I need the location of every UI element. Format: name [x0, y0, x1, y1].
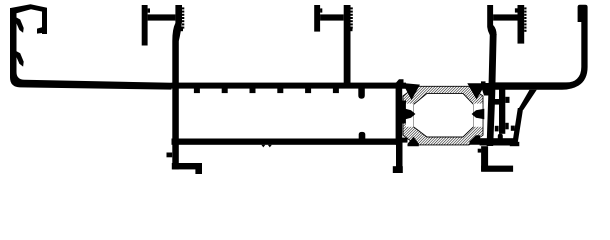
middle fork bridge	[320, 14, 344, 20]
diagonal wall bottom foot	[510, 142, 520, 146]
right step vertical	[481, 146, 488, 171]
mid-right clamp arrow	[472, 104, 485, 127]
left fork stem right nub	[180, 27, 183, 32]
stem left nub	[167, 153, 173, 158]
glazing barb lower on left wall	[17, 51, 24, 66]
left fork left prong	[142, 5, 148, 46]
box bottom wall	[172, 139, 403, 145]
box screw ticks	[194, 89, 339, 94]
right fork serrations	[524, 7, 526, 31]
left fork bridge	[148, 14, 176, 20]
left outer-frame wall with bottom web	[10, 8, 172, 90]
left fork prong top nub	[148, 8, 150, 12]
stem foot end lip	[195, 163, 202, 174]
left fork right prong merging into stem	[172, 5, 182, 169]
top-left clamp	[396, 79, 406, 89]
middle fork serrations	[351, 7, 353, 28]
stem bottom foot	[172, 163, 198, 169]
box right stem foot	[393, 166, 403, 173]
wall-to-boss link	[495, 99, 500, 105]
bottom-right clamp	[470, 135, 487, 145]
glazing barb upper on left wall	[17, 18, 24, 33]
right bottom foot	[481, 166, 513, 172]
screw boss bar	[499, 90, 505, 134]
middle fork left prong	[314, 5, 320, 32]
right fork bridge	[493, 14, 517, 20]
right bottom bar	[480, 138, 518, 145]
middle fork stem right nub	[350, 27, 353, 32]
small tick below box bottom	[261, 145, 272, 148]
top-right clamp	[467, 83, 486, 99]
right step left nub	[478, 149, 482, 153]
box long tooth top	[358, 89, 365, 99]
middle fork right prong / stem down to box	[344, 5, 351, 83]
screw boss top-right nub	[505, 97, 509, 103]
wall lower right nub	[495, 126, 499, 132]
right fork right prong	[518, 5, 525, 44]
diagonal wall	[518, 90, 537, 110]
left frame top-flange right leg	[37, 8, 47, 34]
screw boss bottom dome	[498, 134, 503, 139]
diagonal wall left nub	[511, 126, 515, 131]
box bottom inner tick	[359, 132, 366, 139]
box top wall	[172, 83, 403, 89]
box right wall lower stem	[396, 139, 403, 174]
diagonal wall lower vertical	[512, 108, 523, 146]
left frame top flange	[10, 4, 47, 14]
thermal break insulator ring (hatched)	[403, 86, 483, 145]
right fork left prong	[487, 5, 496, 35]
box right wall	[396, 83, 403, 145]
bottom-left clamp	[396, 138, 408, 143]
left fork serrations	[182, 7, 184, 28]
right profile wall	[487, 34, 497, 146]
middle fork prong top nub	[320, 8, 322, 12]
right top arm with outer curve and end vertical	[494, 5, 588, 90]
mid-left clamp arrow	[399, 101, 416, 127]
screw boss lower-right nub	[505, 123, 508, 130]
right fork prong nub	[515, 8, 518, 12]
